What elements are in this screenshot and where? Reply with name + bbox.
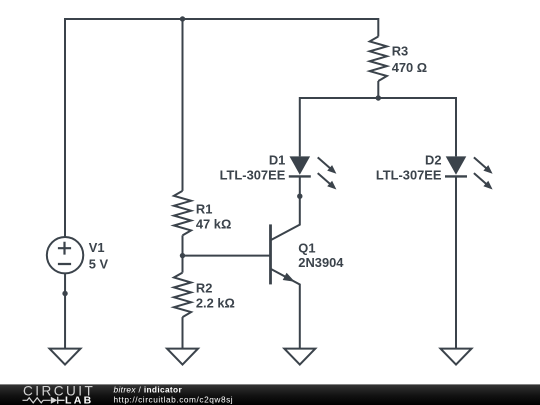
svg-text:2.2 kΩ: 2.2 kΩ — [196, 296, 235, 311]
svg-text:D2: D2 — [425, 153, 441, 168]
svg-text:bitrex / indicator: bitrex / indicator — [114, 385, 183, 395]
svg-text:D1: D1 — [269, 153, 285, 168]
svg-text:R2: R2 — [196, 281, 212, 296]
svg-text:5 V: 5 V — [89, 257, 109, 272]
svg-text:R3: R3 — [392, 44, 408, 59]
svg-text:2N3904: 2N3904 — [298, 255, 344, 270]
svg-text:V1: V1 — [89, 240, 105, 255]
svg-text:R1: R1 — [196, 201, 212, 216]
svg-text:LAB: LAB — [65, 394, 93, 405]
svg-text:470 Ω: 470 Ω — [392, 60, 427, 75]
svg-text:LTL-307EE: LTL-307EE — [376, 167, 442, 182]
svg-text:http://circuitlab.com/c2qw8sj: http://circuitlab.com/c2qw8sj — [114, 394, 234, 404]
svg-text:LTL-307EE: LTL-307EE — [220, 167, 286, 182]
svg-text:47 kΩ: 47 kΩ — [196, 216, 231, 231]
svg-text:Q1: Q1 — [298, 241, 315, 256]
